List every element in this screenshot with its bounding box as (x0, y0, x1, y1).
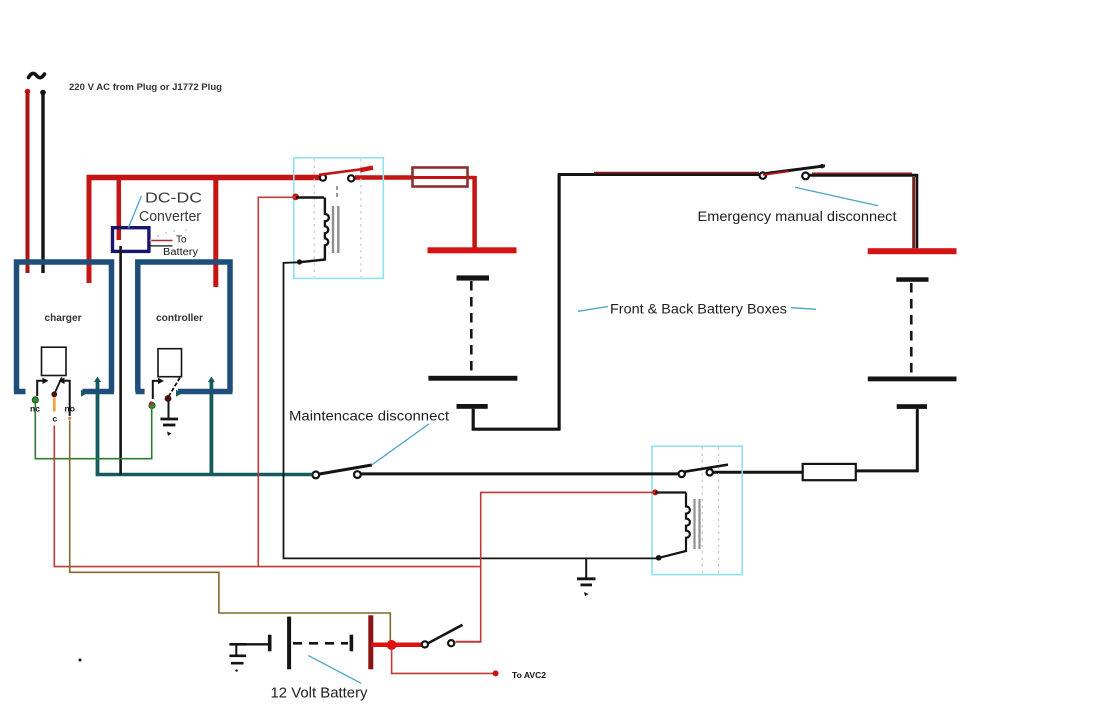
red bus drop to controller (213, 178, 218, 288)
contactor K1 cyan bounding box (294, 158, 384, 279)
svg-text:Maintencace disconnect: Maintencace disconnect (289, 408, 449, 424)
controller relay lever (165, 378, 180, 402)
node coil K1 + dot (292, 194, 299, 201)
svg-text:DC-DC: DC-DC (145, 190, 202, 207)
12V battery negative plate (268, 635, 272, 652)
emergency disconnect lever (763, 164, 825, 175)
thick red wire from 12V positive (371, 642, 423, 647)
back battery positive plate (red) (868, 248, 957, 254)
AC neutral terminal dot (40, 90, 46, 96)
charger box (14, 262, 114, 397)
node nc green dot (32, 397, 38, 403)
wire node to coil K2 (655, 491, 686, 493)
node coil K1 - dot (297, 259, 302, 264)
svg-text:Emergency manual disconnect: Emergency manual disconnect (698, 208, 897, 224)
red control wire from charger c (54, 426, 480, 567)
ground symbol on coil return (577, 558, 596, 596)
DC-DC output wire black (148, 245, 173, 247)
wire back battery negative (856, 409, 918, 471)
svg-text:Battery: Battery (163, 247, 198, 258)
annotation line 12V battery (308, 656, 361, 684)
label controller (156, 312, 203, 324)
red bus wire through fuse (413, 176, 475, 180)
label 220 V AC (69, 82, 222, 92)
stray dot (79, 659, 82, 662)
12V switch contact circle A (422, 641, 428, 647)
node junction big red dot (387, 640, 397, 650)
svg-text:To AVC2: To AVC2 (512, 670, 546, 680)
DC-DC output wire red (149, 240, 173, 242)
red wire switch to riser (456, 641, 482, 643)
12V battery short plate 2 (350, 635, 354, 652)
label To AVC2 (512, 670, 546, 680)
node To AVC2 dot (493, 670, 499, 676)
controller relay box (158, 349, 182, 377)
contactor K2 contact circle B (707, 469, 713, 475)
contactor K1 core lines (333, 206, 338, 253)
olive control wire from charger no (70, 421, 391, 645)
controller contact green/red dot (149, 401, 155, 408)
wire ground to 12V battery negative (236, 643, 270, 645)
red DC bus horizontal wire (87, 175, 322, 181)
svg-text:220 V AC from Plug or J1772 Pl: 220 V AC from Plug or J1772 Plug (69, 82, 222, 92)
label To Battery (163, 235, 198, 259)
label nc (30, 404, 40, 414)
green wire nc to controller contact (35, 403, 151, 459)
ground symbol controller (160, 419, 178, 436)
12V battery positive plate (dark red) (368, 615, 373, 669)
red wire K1 coil to bottom net (258, 197, 296, 566)
AC source symbol ~ (29, 73, 45, 77)
label DC-DC Converter (139, 190, 202, 226)
svg-text:Front & Back Battery Boxes: Front & Back Battery Boxes (610, 301, 787, 317)
label Maintencace disconnect (289, 408, 449, 424)
AC hot terminal dot (25, 89, 31, 95)
faint smudge marks (150, 229, 187, 241)
label charger (45, 312, 82, 324)
back battery riser wire black (916, 174, 919, 248)
front battery long plate 2 (428, 376, 517, 381)
teal riser under controller (208, 377, 215, 475)
node no orange dot (68, 417, 71, 420)
node coil K2 - dot (656, 555, 662, 561)
controller relay wire hook (153, 378, 164, 399)
charger relay lever (51, 378, 61, 398)
black wire K1 coil to K2 coil (284, 262, 659, 558)
red wire to AVC2 (392, 649, 495, 673)
label no (65, 404, 75, 414)
12V battery tall plate 1 (287, 617, 291, 670)
red bus drop to DC-DC (117, 178, 122, 241)
wire front battery negative (473, 409, 560, 429)
fuse F2 (803, 464, 856, 480)
svg-text:To: To (176, 235, 187, 246)
annotation dashes front-back label (578, 307, 816, 312)
label c (53, 414, 58, 424)
svg-text:12 Volt Battery: 12 Volt Battery (271, 685, 368, 702)
teal riser under charger (94, 377, 101, 476)
contactor K2 coil (660, 493, 690, 558)
DC-DC converter box (113, 228, 149, 252)
maintenance disconnect contact circle A (312, 472, 319, 479)
12V switch contact circle B (448, 640, 454, 646)
DC-DC black wire down to teal bus (119, 246, 122, 475)
svg-text:controller: controller (156, 312, 203, 324)
top battery loop wire (right of emergency disconnect) (809, 174, 918, 177)
wire node to coil K1 (296, 196, 324, 198)
fuse F1 (413, 168, 468, 187)
12V battery dashed middle (293, 642, 348, 645)
label 12 Volt Battery (271, 685, 368, 702)
AC neutral wire (41, 93, 44, 273)
charger relay wire hooks (37, 378, 69, 416)
top battery loop wire (left of emergency disconnect) (558, 173, 761, 176)
contactor K2 lever (684, 465, 728, 472)
12V switch lever (429, 625, 463, 643)
svg-text:Converter: Converter (139, 208, 201, 225)
wire fuse F2 to contactor K2 (713, 471, 803, 474)
back battery short plate 1 (896, 277, 928, 282)
contactor K2 contact circle A (679, 471, 685, 477)
red wire bottom net to K2 coil (481, 492, 655, 641)
emergency disconnect contact circle A (760, 172, 766, 178)
back battery long plate 2 (868, 377, 957, 382)
contactor K1 coil (299, 198, 329, 263)
charger relay box (42, 347, 67, 375)
back battery dashed cells (910, 283, 913, 375)
contactor K1 lever (319, 168, 373, 175)
controller ground wire (168, 401, 170, 418)
red bus wire contactor to fuse (355, 175, 413, 180)
AC hot wire (26, 92, 30, 273)
red bus wire down to front battery (472, 176, 477, 248)
maintenance disconnect contact circle B (354, 471, 361, 478)
node c orange stub (53, 398, 56, 412)
svg-text:c: c (53, 414, 58, 424)
controller box (136, 262, 233, 397)
back battery riser wire red (912, 177, 915, 248)
front battery short plate 2 (457, 404, 488, 409)
label Emergency manual disconnect (698, 208, 897, 224)
emergency disconnect contact circle B (802, 173, 809, 180)
red overlay right segment (812, 172, 912, 174)
svg-text:no: no (65, 404, 75, 414)
annotation line emergency (795, 187, 878, 206)
annotation line DC-DC (128, 196, 141, 229)
contactor K1 contact circle B (348, 175, 354, 181)
contactor K2 core lines (695, 499, 700, 549)
svg-text:charger: charger (45, 312, 82, 324)
front battery dashed cells (470, 281, 473, 375)
annotation line maintenance (372, 424, 429, 465)
front battery short plate 1 (457, 275, 490, 280)
front battery positive plate (red) (428, 247, 517, 253)
red overlay on top wire (594, 172, 759, 174)
node coil K2 + dot (652, 489, 658, 495)
teal bus wire (96, 473, 313, 477)
12V battery ground symbol (229, 644, 246, 672)
red bus drop to charger (87, 178, 92, 284)
contactor K2 cyan bounding box (652, 446, 742, 574)
back battery short plate 2 (897, 404, 927, 409)
label Front and Back Battery Boxes (610, 301, 787, 317)
wire contactor K2 to maintenance disconnect (361, 472, 679, 475)
contactor K1 contact circle A (320, 175, 326, 181)
maintenance disconnect lever (320, 465, 372, 474)
wire battery loop left riser (557, 174, 560, 430)
